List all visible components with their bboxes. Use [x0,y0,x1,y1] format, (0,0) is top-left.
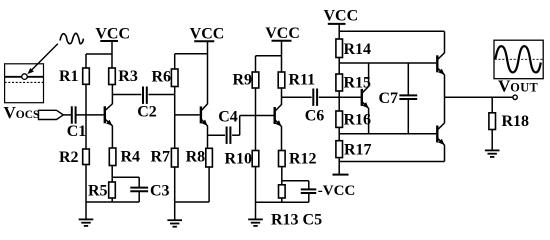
R6-R7 vertical [174,87,176,149]
C5 bottom lead [308,193,310,202]
capacitor C7 [379,90,418,107]
wire collector junction to C2 [112,94,141,96]
stage3 bottom wire [256,201,309,203]
R13 top lead [281,181,283,185]
R8 bottom lead [208,167,210,202]
label VOUT [498,77,539,96]
resistor R14 [336,39,371,58]
svg-text:-VCC: -VCC [318,183,356,199]
resistor R5 [88,182,115,200]
chain R15-J2 [338,91,340,111]
transistor Q3 [274,105,282,127]
capacitor C6 [305,89,325,125]
wire Q3 collector to C6 [282,96,312,98]
transistor QA [436,53,444,75]
sine squiggle [60,33,83,43]
stage1 bottom wire [86,201,139,203]
R18 top lead [491,97,493,113]
capacitor C5 [301,189,317,193]
capacitor C2 [137,87,157,121]
capacitor C3 [130,183,169,200]
ground G1 [79,202,94,226]
output terminal [513,95,517,99]
svg-text:C1: C1 [67,123,87,140]
resistor R18 [489,113,529,130]
svg-text:R4: R4 [121,149,141,166]
resistor R8 [186,148,213,167]
svg-text:R16: R16 [344,112,372,129]
resistor R7 [150,148,178,167]
resistor R15 [336,74,371,92]
wire C1 to Q1 base [76,114,103,116]
svg-text:R18: R18 [502,113,530,130]
svg-text:R3: R3 [118,68,138,85]
QB collector lead [368,63,370,87]
resistor R3 [109,68,138,85]
ground G18 [485,130,500,157]
svg-text:VCC: VCC [95,25,130,42]
label R13 C5 [271,212,322,229]
oscillation source box [5,64,44,103]
svg-text:C3: C3 [150,183,170,200]
output wire [445,96,513,98]
rail stage3 [256,55,282,57]
resistor R6 [151,69,178,87]
resistor R11 [278,72,315,89]
Q1 collector lead [111,95,113,105]
J1 wire [339,62,436,64]
chain R17 to -VCC [338,158,340,175]
svg-text:R14: R14 [344,41,372,58]
QA emitter lead [444,75,446,98]
C7 bottom lead [407,99,409,134]
R9 top lead [255,56,257,72]
resistor R12 [279,151,317,168]
resistor R16 [336,111,371,129]
R1 top lead [85,54,87,68]
C5 top lead [308,181,310,190]
resistor R17 [336,141,372,159]
svg-text:VCC: VCC [323,8,358,25]
C3 bottom lead [138,191,140,202]
R7 bottom lead [174,167,176,202]
Q1 emitter lead [111,126,113,149]
transistor Q1 [104,104,113,126]
C7 top lead [407,63,409,95]
svg-text:R5: R5 [88,183,108,200]
rail stage2 [175,53,208,55]
R2 bottom lead [85,165,87,203]
chain R14-J1 [338,58,340,75]
wire C4 right [232,134,240,136]
svg-text:VCC: VCC [265,25,300,42]
capacitor C4 [218,109,238,144]
power VCC stage1 [95,25,130,42]
J2 wire to QB base [339,96,361,98]
svg-text:R2: R2 [59,149,79,166]
resistor R13 [279,185,286,198]
svg-text:R17: R17 [344,142,372,159]
svg-text:R10: R10 [224,151,252,168]
R3 bottom lead [111,85,113,95]
resistor R1 [59,68,89,85]
svg-text:C4: C4 [218,109,238,126]
QA collector lead [444,31,446,53]
VCC1 stem [111,41,113,68]
R10 bottom lead [255,167,257,203]
svg-text:R12: R12 [289,151,317,168]
wire C6 to R15 node [319,96,339,98]
wire tag to C1 [63,114,71,116]
QB emitter lead [368,108,370,134]
svg-text:R9: R9 [232,72,252,89]
C3 top lead [138,177,140,187]
input tag [39,110,64,119]
VCC4 stem [338,24,340,39]
R2 top lead [85,115,87,149]
capacitor C1 [67,106,87,140]
R12 bottom lead [281,167,283,181]
R1 bottom lead [85,84,87,115]
QC emitter lead [444,145,446,162]
top rail [339,30,444,32]
VCC2 stem and Q2 collector [207,41,209,104]
power VCC stage3 [265,25,300,42]
wire C2 to R6 node [149,94,175,96]
ground G2 [167,202,182,227]
transistor Q2 [200,104,208,126]
wire to Q3 base [240,115,274,117]
svg-text:R1: R1 [59,68,79,85]
R6 top lead [174,54,176,69]
R5 bottom lead [111,198,113,202]
svg-text:R11: R11 [289,72,316,89]
R5 top lead [111,177,113,182]
transistor QC [436,123,444,145]
svg-text:C2: C2 [137,104,157,121]
svg-text:C7: C7 [379,90,399,107]
J3 wire [339,133,436,135]
QC emitter return wire [339,161,444,163]
resistor R10 [224,151,258,168]
stage2 bottom wire [175,201,209,203]
svg-text:R6: R6 [151,69,171,86]
power -VCC [318,175,356,199]
ground G3 [248,202,263,226]
Q3 emitter lead [281,126,283,150]
VCC3 stem [281,41,283,72]
svg-text:VCC: VCC [190,25,225,42]
R13 bottom lead [281,198,283,202]
svg-text:R13 C5: R13 C5 [271,212,322,229]
label VOCS [4,103,40,122]
resistor R4 [109,148,140,166]
svg-text:R7: R7 [150,149,170,166]
QC collector lead [444,97,446,123]
arrow [27,44,57,74]
Q3 collector lead [281,97,283,105]
power VCC stage4 [323,8,358,25]
Q2 base wire [175,114,200,116]
svg-text:C6: C6 [305,108,325,125]
oscilloscope box [494,40,543,78]
Q2 emitter lead [207,126,209,149]
R9-R10 vertical [255,88,257,151]
chain R16-J3 [338,127,340,140]
power VCC stage2 [190,25,225,42]
C4 jog vertical [239,116,241,136]
resistor R2 [59,149,89,166]
rail stage1 [86,53,112,55]
transistor QB [361,86,369,108]
R13C5 top wire [282,180,309,182]
svg-text:R8: R8 [186,149,206,166]
wire Q2 emitter to C4 [208,134,226,136]
R11 bottom lead [281,88,283,97]
R5C3 top wire [112,176,139,178]
R4 bottom lead [111,166,113,178]
resistor R9 [232,72,258,89]
